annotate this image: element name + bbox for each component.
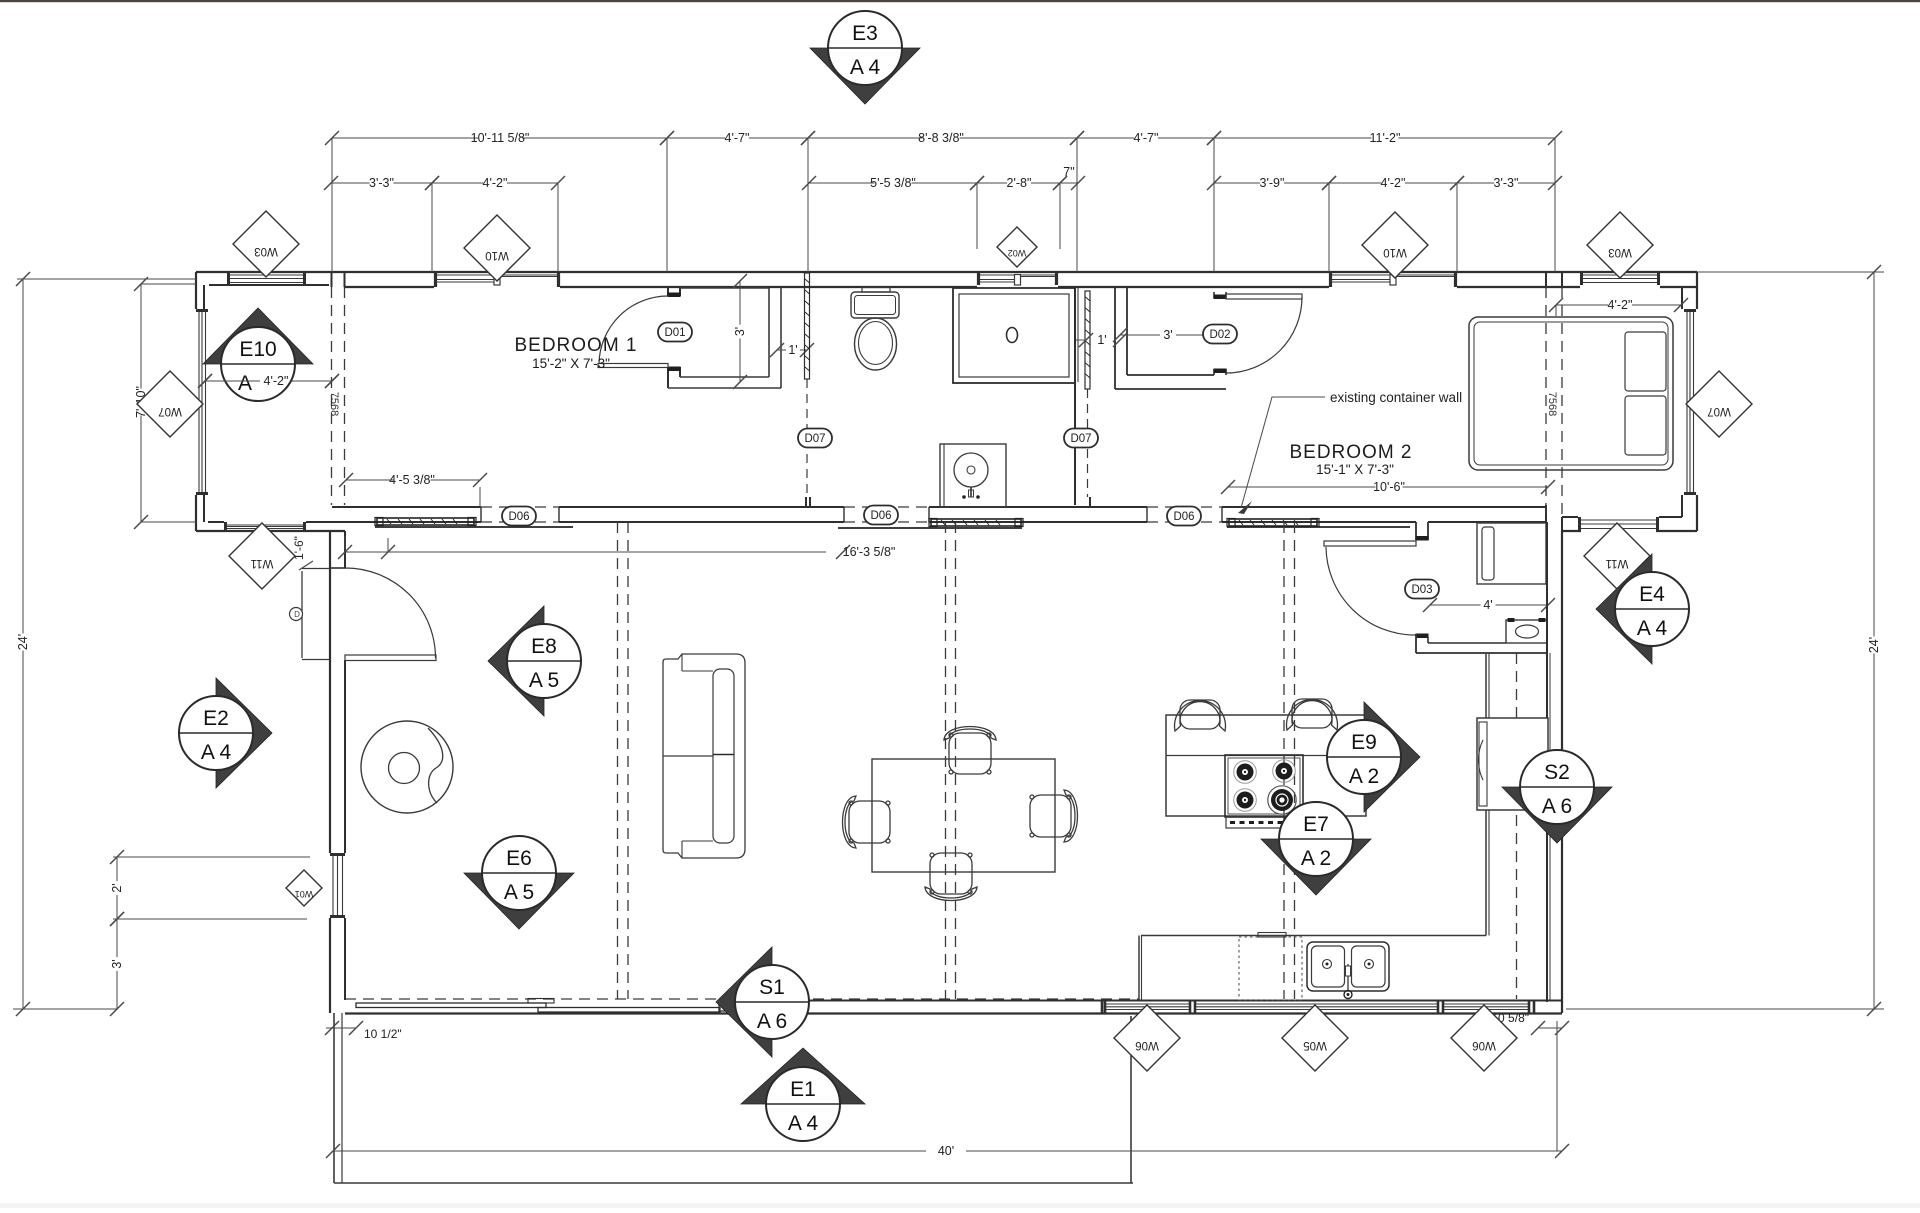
label D06 (bedroom1) (502, 507, 536, 526)
svg-text:3': 3' (1163, 328, 1172, 342)
dim 4' in nook (1430, 604, 1481, 606)
dim row2 4'-2" left (432, 182, 483, 184)
svg-text:4'-5 3/8": 4'-5 3/8" (389, 473, 435, 487)
wall: top exterior wall inner face (main container) (345, 286, 434, 288)
dim 4'-2" left room (over E10) (205, 380, 332, 382)
svg-text:A 4: A 4 (1637, 617, 1668, 640)
svg-text:7": 7" (1063, 165, 1074, 179)
svg-text:A 2: A 2 (1301, 847, 1331, 870)
dim left 24' (22, 279, 24, 633)
svg-text:D07: D07 (1070, 433, 1091, 445)
svg-text:A 6: A 6 (1542, 795, 1572, 818)
window W02 (bathroom top) (977, 272, 980, 285)
couch (663, 654, 745, 858)
svg-text:A 5: A 5 (529, 669, 559, 692)
wall: nook D03 jamb below bedroom2 (1415, 522, 1417, 540)
dashed container joints in living area (617, 522, 619, 999)
svg-text:4'-2": 4'-2" (1381, 176, 1406, 190)
bathroom vanity with sink (940, 444, 1006, 507)
dim 10'-6" bedroom2 (1228, 486, 1375, 488)
callout E8/A5 (488, 606, 544, 716)
svg-text:A 4: A 4 (850, 56, 881, 79)
svg-text:8'-8 3/8": 8'-8 3/8" (918, 131, 964, 145)
svg-text:1': 1' (788, 343, 797, 357)
window W11 (left room bottom) (224, 522, 227, 531)
toilet (851, 292, 899, 318)
svg-text:24': 24' (1867, 637, 1881, 653)
existing container wall (dashed joint) left, label 7568 (331, 287, 333, 505)
entry door opening top jamb (330, 567, 346, 569)
sliding door panel D06 bathroom (838, 527, 1022, 529)
svg-text:D06: D06 (870, 510, 891, 522)
door D01 swing arc (599, 296, 668, 364)
round swivel chair / fan (361, 721, 453, 813)
window W01 (west wall) (330, 853, 345, 856)
pillow 1 (1625, 332, 1666, 391)
window W07 (right room east) (1684, 309, 1696, 312)
window W07 (left room west) (196, 309, 208, 312)
svg-text:W10: W10 (485, 249, 509, 261)
wall: living area south wall / sliding door S1 (345, 998, 1139, 1000)
svg-text:D06: D06 (1173, 511, 1194, 523)
dim 10 5/8" right wall (1538, 1027, 1562, 1029)
tag W07 right (1686, 371, 1752, 437)
svg-text:D: D (294, 610, 300, 619)
window W06 glazing east (1444, 1003, 1528, 1005)
existing container wall (dashed joint) right, label 7568 (1545, 287, 1547, 517)
dim 40' overall (333, 1150, 926, 1152)
tag W06 left (1114, 1005, 1180, 1071)
svg-text:E8: E8 (531, 635, 557, 658)
label D07 (west pocket door) (798, 429, 832, 448)
svg-text:15'-2" X 7'-3": 15'-2" X 7'-3" (532, 356, 610, 371)
tag W07 left (137, 371, 203, 437)
svg-text:A 6: A 6 (757, 1010, 787, 1033)
tag W10 right (1362, 212, 1428, 278)
label D06 (bedroom2) (1167, 507, 1201, 526)
callout E6/A5 (464, 873, 574, 929)
svg-text:2'-8": 2'-8" (1007, 176, 1032, 190)
label D02 (1203, 325, 1237, 344)
dim 4'-2" over E10 redrawn on top (205, 380, 260, 382)
svg-text:1': 1' (1097, 333, 1106, 347)
callout S1/A6 (716, 947, 772, 1057)
stove/range on island (1225, 755, 1303, 817)
svg-text:W05: W05 (1303, 1039, 1327, 1051)
wall: right room east wall (1696, 272, 1698, 309)
svg-text:W06: W06 (1472, 1039, 1496, 1051)
window W03 (left room top) (227, 272, 230, 285)
tag W11 left (229, 523, 295, 589)
svg-text:11'-2": 11'-2" (1370, 131, 1401, 145)
svg-text:D03: D03 (1411, 584, 1432, 596)
dashed joint at kitchen (1516, 653, 1518, 999)
dim row2 2'-8" (977, 182, 1007, 184)
svg-text:4'-2": 4'-2" (1608, 298, 1633, 312)
windows W06/W05/W06 jambs on south wall (1101, 1000, 1104, 1014)
callout E2/A4 (216, 678, 272, 788)
door D06 opening (bathroom) dashed (844, 506, 929, 508)
svg-text:16'-3 5/8": 16'-3 5/8" (843, 545, 896, 559)
svg-text:4'-2": 4'-2" (483, 176, 508, 190)
dim row1 8'-8 3/8" (808, 137, 922, 139)
pillow 2 (1625, 396, 1666, 455)
svg-text:W02: W02 (1008, 248, 1027, 258)
entry stoop outside west wall (301, 571, 303, 658)
wall: bathroom west wall with pocket door D07 (805, 273, 810, 379)
door D01 leaf (598, 364, 668, 368)
svg-text:existing container wall: existing container wall (1330, 390, 1462, 405)
dim row2 3'-3" left (331, 182, 370, 184)
wall: container south wall upper line (332, 506, 481, 508)
svg-text:W11: W11 (251, 557, 274, 569)
svg-text:W10: W10 (1383, 246, 1407, 258)
kitchen double sink (1307, 942, 1389, 991)
svg-text:D02: D02 (1209, 329, 1230, 341)
svg-text:W01: W01 (295, 889, 314, 899)
svg-text:E3: E3 (852, 22, 878, 45)
label D07 (east pocket door) (1064, 429, 1098, 448)
svg-text:E2: E2 (203, 707, 229, 730)
svg-text:3'-9": 3'-9" (1260, 176, 1285, 190)
svg-text:E4: E4 (1639, 583, 1665, 606)
kitchen counter (1141, 935, 1486, 937)
stove front band (1226, 817, 1300, 828)
svg-text:7568: 7568 (1546, 392, 1558, 416)
bar stool 1 (1175, 700, 1226, 731)
burners (1234, 761, 1257, 784)
svg-text:E10: E10 (239, 338, 276, 361)
dim row2 3'-9" (1214, 182, 1260, 184)
dining chair south (925, 853, 977, 901)
tag W06 right (1451, 1005, 1517, 1071)
sliding door panel D06 bedroom2 (1227, 526, 1410, 528)
svg-text:E6: E6 (506, 847, 532, 870)
svg-text:D01: D01 (664, 327, 685, 339)
door D06 opening (bedroom2) dashed (1147, 506, 1222, 508)
door D02 jamb stubs (1213, 292, 1215, 298)
callout S2/A6 (1502, 787, 1612, 843)
wall: lower east wall (1546, 522, 1548, 1002)
svg-text:S1: S1 (759, 976, 785, 999)
dining chair north (944, 727, 996, 775)
callout E7/A2 (1261, 839, 1371, 895)
dim row2 7" (1060, 182, 1078, 184)
shower (953, 288, 1075, 383)
svg-text:3': 3' (110, 959, 124, 968)
dim row2 3'-3" right (1457, 182, 1494, 184)
label D06 (bathroom) (864, 506, 898, 525)
wall: left room inner top face (209, 284, 329, 286)
svg-text:A: A (238, 372, 252, 395)
dim left 7'-10" (140, 284, 142, 388)
tag W03 right (1587, 212, 1653, 278)
svg-text:S2: S2 (1544, 761, 1570, 784)
dim 1' at closet chase (777, 349, 786, 351)
dim 16'-3 5/8" (345, 551, 826, 553)
wall: right room bottom (1562, 530, 1581, 532)
dim row1 10'-11 5/8" (332, 137, 478, 139)
dim row1 4'-7" left (667, 137, 725, 139)
svg-text:4': 4' (1483, 598, 1492, 612)
joint stubs in wall bands (1545, 272, 1547, 287)
window W03 (right room top) (1580, 272, 1583, 285)
sliding door panel D06 bedroom1 (375, 526, 573, 528)
wall: left room bottom (196, 530, 345, 532)
dim 1' vestibule chase (1079, 333, 1093, 347)
sliding glass door S1 panels (356, 1003, 546, 1008)
window W05 glazing (1196, 1003, 1437, 1005)
svg-text:D07: D07 (804, 433, 825, 445)
svg-text:D06: D06 (508, 511, 529, 523)
porch / deck outline (333, 1013, 335, 1183)
wall: left room west wall (195, 272, 197, 309)
dim extension lines from top rows (331, 138, 333, 272)
svg-text:3': 3' (733, 327, 747, 336)
scan edge artifact top (0, 0, 1920, 2)
dim 10 1/2" porch offset (326, 1027, 356, 1029)
dining chair west (843, 796, 891, 848)
svg-text:5'-5 3/8": 5'-5 3/8" (870, 176, 916, 190)
window W11 (right room bottom) (1578, 517, 1581, 531)
dim left 3' (116, 919, 118, 957)
callout E4/A4 (1596, 554, 1652, 664)
svg-text:W07: W07 (158, 405, 182, 417)
dim row1 11'-2" (1214, 137, 1371, 139)
door D03 leaf (1324, 541, 1416, 546)
wall: bathroom east wall with pocket door D07 (1074, 287, 1076, 505)
wall: bedroom1 east wall + closet by D01 (667, 287, 669, 296)
svg-text:E9: E9 (1351, 731, 1377, 754)
svg-text:2': 2' (110, 883, 124, 892)
shoe cabinet in nook (1506, 620, 1547, 643)
svg-text:4'-2": 4'-2" (264, 374, 289, 388)
svg-text:W07: W07 (1707, 405, 1731, 417)
svg-text:10'-11 5/8": 10'-11 5/8" (471, 131, 530, 145)
window W06 glazing west (1106, 1003, 1189, 1005)
queen bed bedroom2 (1469, 317, 1673, 470)
svg-text:A 4: A 4 (788, 1112, 819, 1135)
svg-text:A 4: A 4 (201, 741, 232, 764)
dim left 2' (116, 857, 118, 881)
callout E3/A4 (810, 48, 920, 104)
svg-text:7568: 7568 (328, 392, 340, 416)
dining table (872, 759, 1055, 872)
door D06 opening (bedroom1) dashed (481, 506, 559, 508)
refrigerator (1477, 718, 1548, 810)
callout E10/A4 (203, 308, 313, 364)
dim row2 4'-2" right (1329, 182, 1381, 184)
svg-text:W03: W03 (254, 245, 278, 257)
dim row1 4'-7" right (1077, 137, 1134, 139)
svg-text:4'-7": 4'-7" (1134, 131, 1159, 145)
svg-text:40': 40' (938, 1144, 954, 1158)
wall: nook south wall (1416, 634, 1428, 638)
label D03 (1405, 580, 1439, 599)
svg-text:4'-7": 4'-7" (725, 131, 750, 145)
tag W02 (997, 227, 1037, 267)
door D02 leaf (1226, 294, 1302, 299)
svg-text:A 5: A 5 (504, 881, 534, 904)
svg-text:3'-3": 3'-3" (1494, 176, 1519, 190)
dim row2 5'-5 3/8" (809, 182, 874, 184)
dishwasher (dotted) (1239, 937, 1302, 1000)
entry door D05 leaf (345, 655, 436, 661)
dim right 24' (1873, 272, 1875, 636)
kitchen island (1166, 715, 1366, 816)
svg-text:3'-3": 3'-3" (369, 176, 394, 190)
twin bench/bed in nook (1477, 523, 1546, 584)
wall: living area west wall (329, 531, 331, 853)
window W10 (bedroom2 top) (1329, 272, 1332, 287)
dim 3' vestibule (1120, 334, 1160, 336)
door D03 swing arc (1326, 547, 1416, 635)
label D01 (658, 323, 692, 342)
svg-text:10'-6": 10'-6" (1373, 480, 1405, 494)
callout E9/A2 (1364, 702, 1420, 812)
svg-text:E1: E1 (790, 1078, 816, 1101)
svg-text:W03: W03 (1608, 246, 1632, 258)
dim right 4'-2" bedroom2 head (1556, 304, 1608, 306)
dim 3' vertical at D01 (739, 281, 741, 325)
tag W01 (286, 870, 322, 906)
callout E1/A4 (741, 1048, 865, 1104)
wall: top exterior wall outer face (196, 271, 1697, 273)
svg-text:E7: E7 (1303, 813, 1329, 836)
wall: container south wall lower line (345, 521, 481, 523)
dining chair east (1030, 790, 1078, 842)
tag W11 right (1584, 523, 1650, 589)
window W10 (bedroom1 top) (434, 272, 437, 287)
svg-text:BEDROOM 2: BEDROOM 2 (1289, 442, 1412, 463)
doorbell / fixture circle at stoop (290, 608, 303, 621)
wall: vestibule walls to bedroom2 (1114, 287, 1116, 389)
door D02 swing arc (1226, 297, 1302, 373)
svg-text:W11: W11 (1606, 557, 1629, 569)
svg-text:W06: W06 (1135, 1039, 1159, 1051)
svg-text:24': 24' (16, 634, 30, 650)
svg-text:15'-1" X 7'-3": 15'-1" X 7'-3" (1316, 462, 1394, 477)
dim 4'-5 3/8" bedroom1 (346, 479, 393, 481)
svg-text:10 1/2": 10 1/2" (364, 1027, 402, 1041)
tag W10 left (464, 215, 530, 281)
tag W05 (1282, 1005, 1348, 1071)
svg-text:A 2: A 2 (1349, 765, 1379, 788)
bar stool 2 (1287, 699, 1338, 730)
svg-text:BEDROOM 1: BEDROOM 1 (514, 335, 637, 356)
tag W03 left (233, 211, 299, 277)
entry door swing arc (346, 568, 436, 658)
